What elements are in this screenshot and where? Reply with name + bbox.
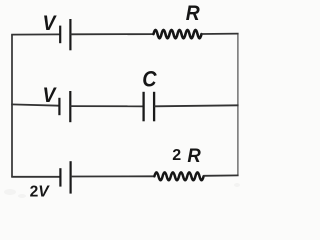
scan smudges (noise) <box>4 183 240 198</box>
wire middle-right (capacitor C to right rail) <box>154 105 239 106</box>
label V (battery V2) <box>43 84 57 107</box>
battery V2 <box>59 91 70 122</box>
wire middle-left (to battery V2) <box>11 104 59 105</box>
label 2R (resistor 2R) <box>172 146 201 168</box>
wire top-right (resistor R to right rail) <box>201 33 238 35</box>
svg-text:V: V <box>43 12 57 35</box>
battery V3 (2V) <box>60 161 70 193</box>
svg-text:2: 2 <box>172 147 181 164</box>
label V (battery V1) <box>43 12 57 35</box>
wire bottom-middle (battery V3 to resistor 2R) <box>71 175 155 177</box>
resistor 2R <box>154 172 203 180</box>
svg-text:R: R <box>186 2 200 25</box>
battery V1 <box>60 19 70 50</box>
label R (resistor R) <box>186 2 200 25</box>
svg-text:R: R <box>187 146 201 168</box>
wire right vertical <box>237 34 239 176</box>
svg-text:C: C <box>142 67 157 91</box>
wire bottom-left (to battery V3) <box>11 176 60 178</box>
wire top-left (to battery V1) <box>11 33 60 35</box>
svg-text:V: V <box>43 84 57 107</box>
label 2V (battery V3) <box>30 184 51 201</box>
wire left vertical <box>11 35 13 177</box>
wire middle-centre (battery V2 to capacitor C) <box>70 105 143 107</box>
svg-text:2V: 2V <box>30 184 51 201</box>
capacitor C <box>144 92 155 122</box>
wire bottom-right (resistor 2R to right rail) <box>203 174 238 176</box>
wire top-middle (battery V1 to resistor R) <box>70 33 153 35</box>
label C (capacitor C) <box>142 67 157 91</box>
resistor R <box>154 30 202 38</box>
